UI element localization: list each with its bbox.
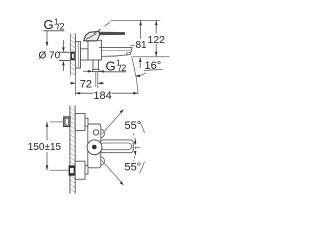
lever plan outer (101, 140, 134, 153)
55 ray up (102, 111, 123, 134)
svg-text:55°: 55° (125, 120, 142, 132)
svg-text:184: 184 (93, 90, 111, 102)
elbow circles (96, 129, 105, 138)
lever plan inner (101, 143, 132, 150)
16deg arrow up (139, 58, 141, 68)
label Ø 70 (39, 50, 61, 61)
150 dim extension lines (50, 121, 64, 123)
svg-text:/2: /2 (57, 22, 65, 32)
body (88, 40, 102, 60)
bottom fitting (69, 165, 76, 175)
svg-text:55°: 55° (125, 162, 142, 174)
raised lever dashes (94, 29, 101, 34)
union block (81, 49, 89, 60)
wall hatch (70, 34, 75, 77)
svg-text:Ø 70: Ø 70 (39, 50, 61, 61)
G1/2 outlet arrows (99, 70, 106, 72)
through-wall nut (71, 52, 75, 61)
text 122 (147, 34, 165, 47)
extension line top (from raised lever) (111, 20, 161, 22)
dim 184 (75, 92, 93, 94)
svg-text:G: G (44, 17, 54, 32)
Ø70 tick lines (60, 51, 69, 53)
spout (99, 46, 132, 48)
svg-text:122: 122 (148, 34, 166, 46)
16deg arc arrow (136, 73, 146, 76)
dim 122 (155, 21, 157, 57)
label G 1/2 top (44, 17, 65, 32)
label G 1/2 mid (106, 59, 127, 74)
16deg reference horizontal (133, 56, 170, 58)
wall hatch plan (70, 106, 75, 194)
dome circle (87, 140, 102, 155)
short arcs near labels (140, 121, 145, 133)
centerline (99, 146, 140, 148)
svg-text:81: 81 (136, 40, 148, 51)
svg-text:/2: /2 (119, 63, 127, 73)
supply pipe (59, 51, 71, 53)
swing arc dashed (133, 133, 135, 161)
extension line spout top right (130, 45, 142, 47)
stub extension lines (95, 72, 97, 87)
lever blade (99, 32, 125, 35)
mixer body plan (88, 124, 101, 168)
outlet stub (93, 60, 98, 69)
svg-text:G: G (106, 59, 116, 74)
dim 72 (71, 82, 76, 84)
top fitting (64, 117, 70, 126)
underline G1/2 (44, 30, 65, 32)
svg-text:150±15: 150±15 (28, 142, 62, 153)
wall lines (69, 34, 71, 77)
escutcheon (75, 42, 80, 69)
small circle (93, 130, 98, 135)
svg-text:72: 72 (80, 79, 92, 91)
16deg steep line (132, 56, 137, 78)
lever nose (84, 31, 100, 41)
Ø70 arrows (62, 40, 64, 49)
text 81 (135, 40, 147, 51)
150 dim line (46, 122, 48, 141)
arc arrowheads (134, 139, 137, 144)
dim 81 (140, 21, 142, 40)
wall face extension down (74, 76, 76, 96)
55 ray down (102, 160, 123, 183)
leader arrow G1/2 down (46, 31, 48, 44)
